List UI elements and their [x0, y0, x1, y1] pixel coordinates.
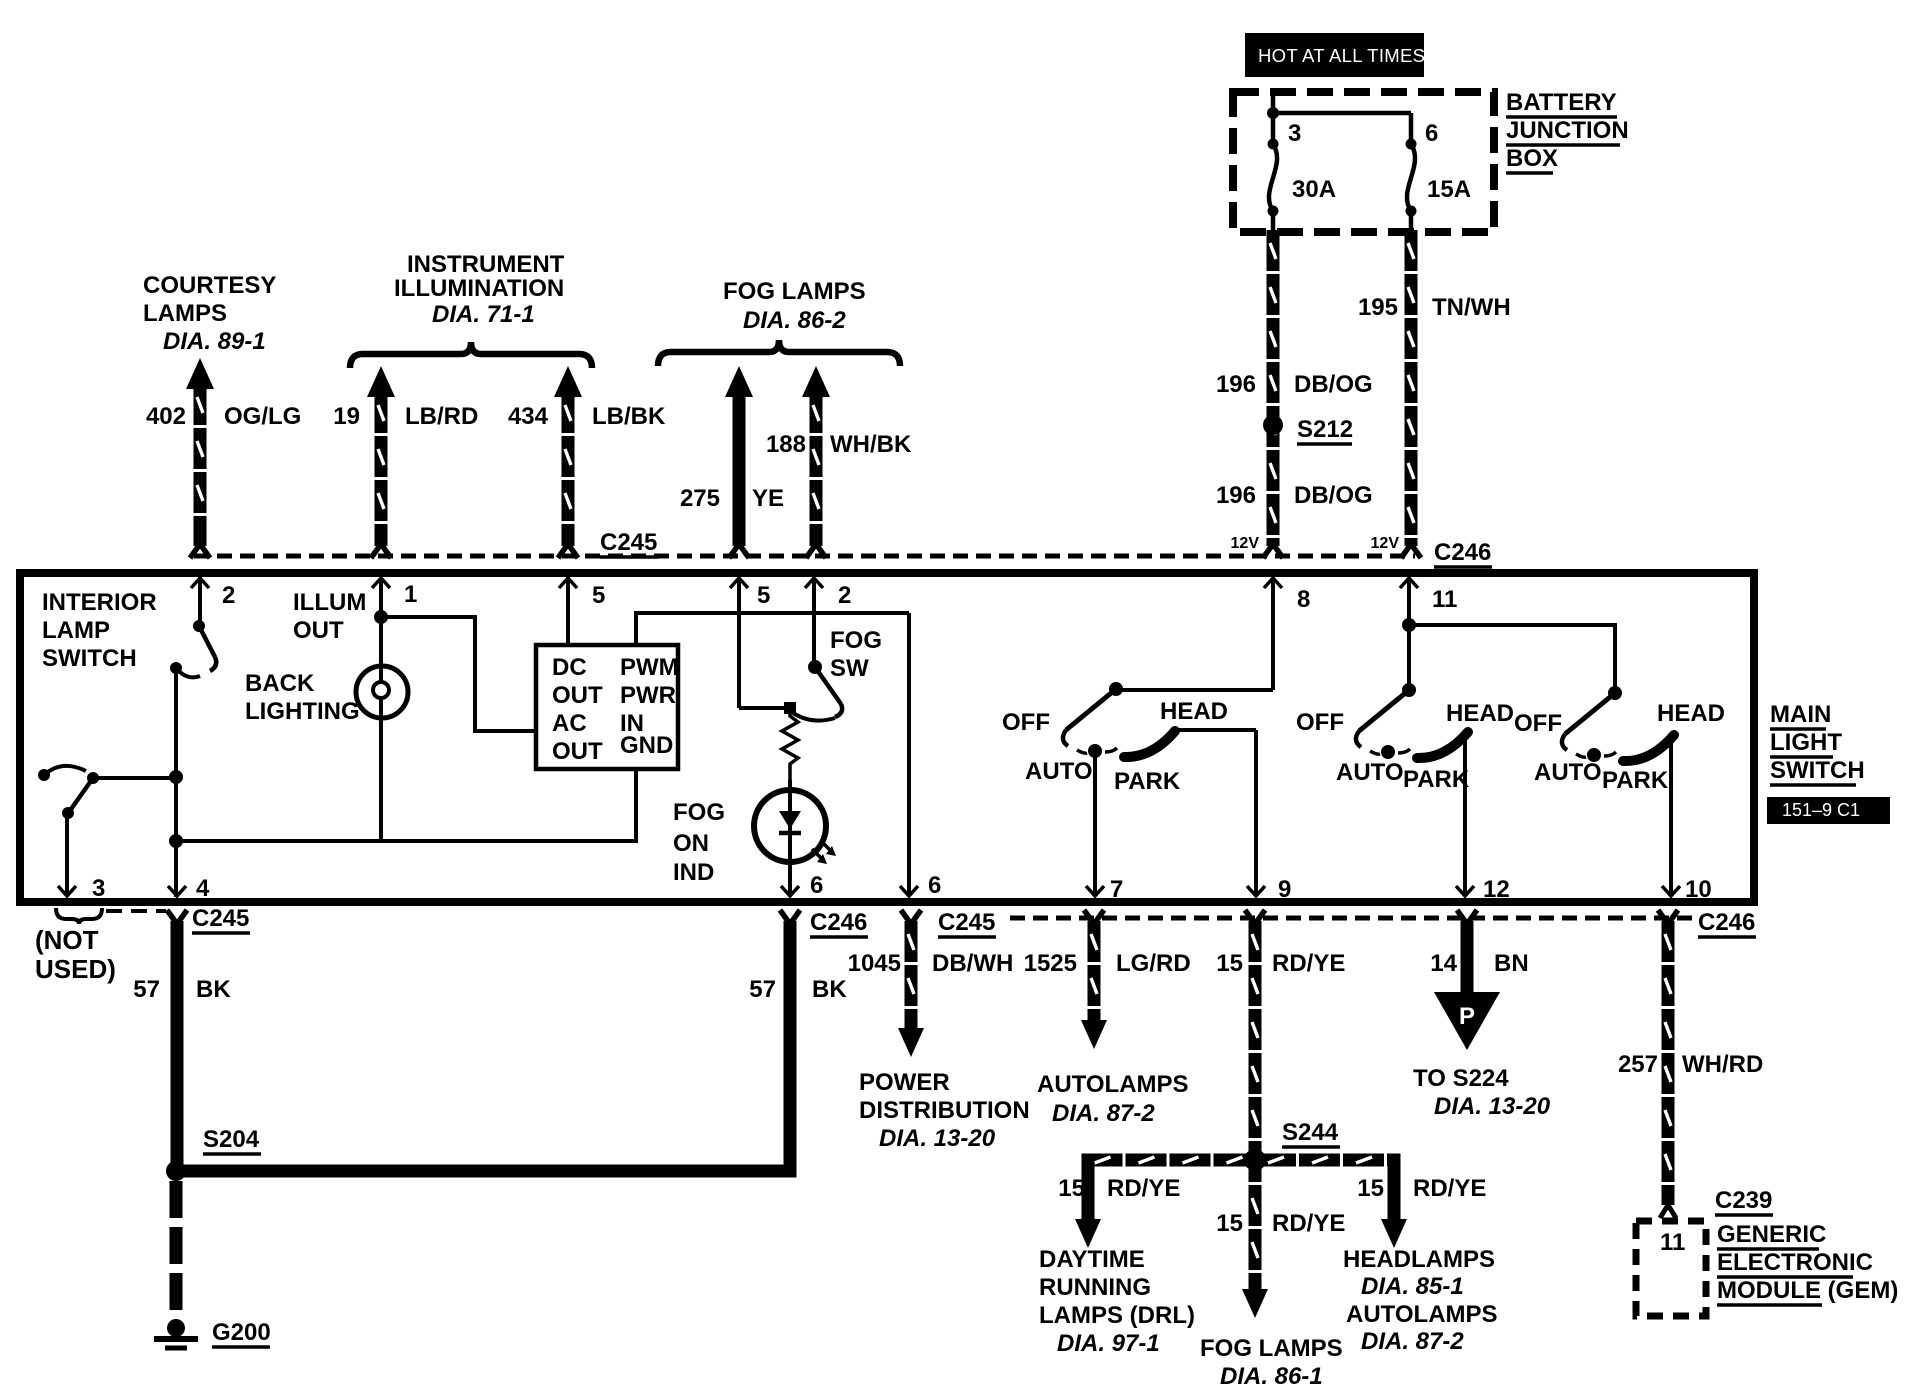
svg-text:OUT: OUT: [293, 617, 344, 644]
svg-text:DIA. 89-1: DIA. 89-1: [163, 328, 266, 355]
svg-text:RD/YE: RD/YE: [1413, 1175, 1486, 1202]
PWM module box: [536, 645, 678, 769]
svg-text:LB/BK: LB/BK: [592, 403, 666, 430]
svg-text:WH/RD: WH/RD: [1682, 1051, 1763, 1078]
connector C246 flare (wire 196): [1263, 544, 1273, 558]
svg-text:RD/YE: RD/YE: [1272, 950, 1345, 977]
svg-text:DIA. 71-1: DIA. 71-1: [432, 301, 535, 328]
svg-text:DB/OG: DB/OG: [1294, 482, 1373, 509]
svg-text:OFF: OFF: [1514, 710, 1562, 737]
fog lamps brace: [658, 340, 900, 366]
svg-text:C246: C246: [810, 909, 867, 936]
wire 57 BK left: [171, 921, 184, 1171]
svg-text:IND: IND: [673, 859, 714, 886]
svg-text:15: 15: [1216, 950, 1243, 977]
pin 5 (fog feed): [737, 580, 741, 708]
svg-text:196: 196: [1216, 371, 1256, 398]
ground bus inside switch: [176, 839, 636, 843]
svg-text:DISTRIBUTION: DISTRIBUTION: [859, 1097, 1030, 1124]
pin 8 (12V feed 1): [1271, 580, 1275, 690]
svg-text:LAMPS: LAMPS: [143, 300, 227, 327]
svg-text:8: 8: [1297, 586, 1310, 613]
interior lamp switch contact (pin 2): [193, 620, 205, 632]
wire 15 RD/YE main (fog lamps): [1249, 921, 1262, 1290]
svg-text:6: 6: [810, 872, 823, 899]
wire 402 OG/LG (to courtesy lamps): [186, 358, 214, 389]
svg-text:RD/YE: RD/YE: [1272, 1210, 1345, 1237]
svg-text:11: 11: [1660, 1229, 1685, 1256]
svg-text:INTERIOR: INTERIOR: [42, 589, 157, 616]
svg-text:PWM: PWM: [620, 654, 679, 681]
wire S204 bus: [171, 1165, 797, 1178]
svg-text:2: 2: [838, 582, 851, 609]
svg-text:JUNCTION: JUNCTION: [1506, 117, 1629, 144]
svg-text:PARK: PARK: [1602, 767, 1669, 794]
svg-text:C246: C246: [1434, 539, 1491, 566]
svg-text:434: 434: [508, 403, 549, 430]
pin 7 (autolamps): [1093, 751, 1097, 896]
svg-text:DC: DC: [552, 654, 587, 681]
pin 11 (12V feed 2): [1407, 580, 1411, 690]
svg-text:6: 6: [928, 872, 941, 899]
pin 2 (courtesy): [198, 580, 202, 626]
PWM pwr wire: [634, 611, 638, 645]
svg-text:3: 3: [1288, 120, 1301, 147]
wire 14 BN (to S224): [1461, 921, 1474, 994]
svg-text:PARK: PARK: [1403, 766, 1470, 793]
svg-text:MODULE (GEM): MODULE (GEM): [1717, 1277, 1898, 1304]
svg-text:DIA. 13-20: DIA. 13-20: [1434, 1093, 1551, 1120]
svg-text:DIA. 86-2: DIA. 86-2: [743, 307, 846, 334]
svg-text:HEAD: HEAD: [1446, 700, 1514, 727]
svg-text:C245: C245: [600, 529, 657, 556]
wire pin4 net vertical: [174, 668, 178, 897]
svg-text:2: 2: [222, 582, 235, 609]
svg-text:FOG: FOG: [673, 799, 725, 826]
not used bracket: [56, 908, 102, 924]
svg-text:ELECTRONIC: ELECTRONIC: [1717, 1249, 1873, 1276]
svg-text:57: 57: [133, 976, 160, 1003]
svg-text:15: 15: [1216, 1210, 1243, 1237]
connector flare (1525): [1084, 910, 1094, 924]
pin 9 (park out): [1254, 730, 1258, 896]
svg-text:ON: ON: [673, 830, 709, 857]
svg-text:WH/BK: WH/BK: [830, 431, 912, 458]
pin 5 (illum pwm): [566, 580, 570, 645]
svg-text:TN/WH: TN/WH: [1432, 294, 1511, 321]
svg-text:5: 5: [757, 582, 770, 609]
svg-text:OFF: OFF: [1296, 709, 1344, 736]
svg-text:AUTOLAMPS: AUTOLAMPS: [1037, 1071, 1189, 1098]
svg-text:COURTESY: COURTESY: [143, 272, 276, 299]
svg-text:ILLUM: ILLUM: [293, 589, 366, 616]
instrument illumination brace: [350, 342, 592, 368]
pin 1 (illum out): [379, 580, 383, 617]
top connector dashed line C245/C246: [194, 554, 1415, 559]
svg-text:C245: C245: [192, 905, 249, 932]
svg-text:12V: 12V: [1371, 535, 1400, 552]
svg-text:15A: 15A: [1427, 176, 1471, 203]
svg-text:SWITCH: SWITCH: [1770, 757, 1865, 784]
svg-text:BATTERY: BATTERY: [1506, 89, 1617, 116]
svg-text:30A: 30A: [1292, 176, 1336, 203]
svg-text:AUTO: AUTO: [1336, 759, 1404, 786]
svg-text:OUT: OUT: [552, 738, 603, 765]
svg-text:4: 4: [196, 875, 210, 902]
svg-text:LG/RD: LG/RD: [1116, 950, 1191, 977]
svg-text:257: 257: [1618, 1051, 1658, 1078]
pin 6 (fog ind out): [788, 862, 792, 896]
svg-text:YE: YE: [752, 485, 784, 512]
svg-text:BOX: BOX: [1506, 145, 1558, 172]
svg-text:9: 9: [1278, 876, 1291, 903]
svg-text:1525: 1525: [1024, 950, 1077, 977]
wire 19 LB/RD: [367, 366, 395, 397]
svg-text:15: 15: [1058, 1175, 1085, 1202]
connector C246 flare (wire 195): [1401, 544, 1411, 558]
svg-text:HEADLAMPS: HEADLAMPS: [1343, 1246, 1495, 1273]
svg-text:LIGHTING: LIGHTING: [245, 698, 360, 725]
wire 15 RD/YE branch left (DRL): [1082, 1154, 1256, 1167]
ground G200 symbol: [167, 1319, 185, 1337]
svg-text:195: 195: [1358, 294, 1398, 321]
svg-text:HOT AT ALL TIMES: HOT AT ALL TIMES: [1258, 45, 1425, 66]
svg-text:SWITCH: SWITCH: [42, 645, 137, 672]
svg-text:12: 12: [1483, 876, 1510, 903]
svg-text:11: 11: [1432, 586, 1457, 613]
wire 15 RD/YE branch right (headlamps): [1255, 1154, 1401, 1167]
fuse 6 (15A): [1406, 139, 1417, 150]
svg-text:3: 3: [92, 875, 105, 902]
svg-text:S244: S244: [1282, 1119, 1339, 1146]
svg-text:C239: C239: [1715, 1187, 1772, 1214]
back lighting bulb: [379, 617, 383, 668]
svg-text:1045: 1045: [848, 950, 901, 977]
svg-text:BK: BK: [812, 976, 847, 1003]
svg-text:PWR: PWR: [620, 682, 676, 709]
fog switch contact: [739, 706, 790, 710]
svg-text:DIA. 86-1: DIA. 86-1: [1220, 1363, 1323, 1390]
svg-text:OFF: OFF: [1002, 709, 1050, 736]
svg-text:10: 10: [1685, 876, 1712, 903]
pin 3 (not used): [65, 813, 69, 896]
svg-text:GND: GND: [620, 732, 673, 759]
svg-text:GENERIC: GENERIC: [1717, 1221, 1826, 1248]
svg-text:BACK: BACK: [245, 670, 315, 697]
svg-text:DIA. 87-2: DIA. 87-2: [1361, 1328, 1464, 1355]
svg-text:AUTOLAMPS: AUTOLAMPS: [1346, 1301, 1498, 1328]
svg-text:DAYTIME: DAYTIME: [1039, 1246, 1145, 1273]
splice S204: [166, 1161, 186, 1181]
svg-text:LAMP: LAMP: [42, 617, 110, 644]
svg-text:SW: SW: [830, 655, 869, 682]
svg-text:DIA. 13-20: DIA. 13-20: [879, 1125, 996, 1152]
connector flare (15 RD/YE): [1245, 910, 1255, 924]
svg-text:P: P: [1459, 1003, 1475, 1030]
svg-text:196: 196: [1216, 482, 1256, 509]
pin 10 (head out 3): [1669, 733, 1673, 896]
svg-text:19: 19: [333, 403, 360, 430]
svg-text:USED): USED): [35, 954, 116, 984]
connector C245 flare (1045): [901, 910, 911, 924]
head switch 3 (pin 10): [1409, 623, 1615, 627]
svg-text:LB/RD: LB/RD: [405, 403, 478, 430]
svg-text:G200: G200: [212, 1319, 271, 1346]
svg-text:S212: S212: [1297, 416, 1353, 443]
svg-text:MAIN: MAIN: [1770, 701, 1831, 728]
svg-text:AUTO: AUTO: [1025, 758, 1093, 785]
generic electronic module box: [1636, 1221, 1706, 1316]
connector C246 flare (57 BK right): [780, 910, 790, 924]
svg-text:HEAD: HEAD: [1160, 698, 1228, 725]
svg-text:AUTO: AUTO: [1534, 759, 1602, 786]
svg-text:151–9 C1: 151–9 C1: [1782, 800, 1860, 820]
svg-text:RUNNING: RUNNING: [1039, 1274, 1151, 1301]
connector ref 151-9 C1: [1767, 797, 1890, 824]
svg-text:FOG LAMPS: FOG LAMPS: [1200, 1335, 1343, 1362]
connector flare (14 BN): [1457, 910, 1467, 924]
svg-text:LIGHT: LIGHT: [1770, 729, 1842, 756]
svg-text:HEAD: HEAD: [1657, 700, 1725, 727]
LED fog on indicator: [788, 780, 792, 792]
svg-text:DB/WH: DB/WH: [932, 950, 1013, 977]
svg-text:OUT: OUT: [552, 682, 603, 709]
wire 195 TN/WH (fuse 6 to pin 11): [1405, 230, 1418, 546]
pin 12 (head out 2): [1463, 730, 1467, 896]
svg-text:POWER: POWER: [859, 1069, 950, 1096]
main light switch box: [20, 573, 1754, 902]
svg-text:15: 15: [1357, 1175, 1384, 1202]
pin 4 (ground out): [168, 886, 186, 896]
svg-text:INSTRUMENT: INSTRUMENT: [407, 251, 565, 278]
svg-text:FOG: FOG: [830, 627, 882, 654]
ground wire dashed: [170, 1181, 183, 1316]
splice S244: [1244, 1149, 1266, 1171]
wire 1525 LG/RD (autolamps): [1088, 921, 1101, 1021]
svg-text:188: 188: [766, 431, 806, 458]
wire 257 WH/RD (to GEM): [1662, 921, 1675, 1205]
svg-text:AC: AC: [552, 710, 587, 737]
svg-text:57: 57: [749, 976, 776, 1003]
wire 1045 DB/WH (power distribution): [905, 921, 918, 1029]
fuse 3 (30A): [1268, 139, 1279, 150]
svg-text:ILLUMINATION: ILLUMINATION: [394, 275, 564, 302]
junction dot B: [169, 834, 183, 848]
svg-text:DIA. 87-2: DIA. 87-2: [1052, 1100, 1155, 1127]
bottom connector dashed line: [1010, 916, 1694, 921]
wire 188 WH/BK: [802, 366, 830, 397]
svg-text:(NOT: (NOT: [35, 925, 99, 955]
BJB feed wire and junction: [1271, 94, 1276, 144]
illum out node: [374, 610, 388, 624]
interior lamp switch contact (pin 3): [38, 769, 50, 781]
svg-text:BN: BN: [1494, 950, 1529, 977]
svg-text:7: 7: [1110, 876, 1123, 903]
battery junction box outline: [1233, 92, 1494, 232]
head switch 1 (pins 8/7/9): [1116, 688, 1273, 692]
head switch 2 (pins 11/12): [1402, 618, 1416, 632]
svg-text:402: 402: [146, 403, 186, 430]
svg-text:C246: C246: [1698, 909, 1755, 936]
junction dot A: [169, 770, 183, 784]
svg-text:RD/YE: RD/YE: [1107, 1175, 1180, 1202]
wire 434 LB/BK: [554, 366, 582, 397]
svg-text:FOG LAMPS: FOG LAMPS: [723, 278, 866, 305]
svg-text:1: 1: [404, 581, 417, 608]
svg-text:DIA. 85-1: DIA. 85-1: [1361, 1273, 1464, 1300]
svg-text:S204: S204: [203, 1126, 260, 1153]
svg-text:BK: BK: [196, 976, 231, 1003]
wire 196 DB/OG (fuse 3 to pin 8): [1267, 230, 1280, 546]
svg-text:TO S224: TO S224: [1413, 1065, 1509, 1092]
svg-text:5: 5: [592, 582, 605, 609]
connector C246 flare (257): [1658, 910, 1668, 924]
svg-text:DB/OG: DB/OG: [1294, 371, 1373, 398]
svg-text:PARK: PARK: [1114, 768, 1181, 795]
wire 275 YE: [725, 366, 753, 397]
pin 2 (fog sw): [812, 580, 816, 667]
svg-text:12V: 12V: [1231, 535, 1260, 552]
svg-text:DIA. 97-1: DIA. 97-1: [1057, 1330, 1160, 1357]
svg-text:OG/LG: OG/LG: [224, 403, 301, 430]
svg-text:C245: C245: [938, 909, 995, 936]
svg-text:275: 275: [680, 485, 720, 512]
pin 6 (pwm pwr): [907, 613, 911, 896]
svg-text:LAMPS (DRL): LAMPS (DRL): [1039, 1302, 1195, 1329]
power label HOT AT ALL TIMES: [1245, 33, 1424, 77]
splice S212: [1263, 415, 1283, 435]
svg-text:6: 6: [1425, 120, 1438, 147]
resistor (fog ind): [782, 712, 798, 780]
connector C245 flare (57 BK left): [167, 910, 177, 924]
svg-text:14: 14: [1430, 950, 1457, 977]
